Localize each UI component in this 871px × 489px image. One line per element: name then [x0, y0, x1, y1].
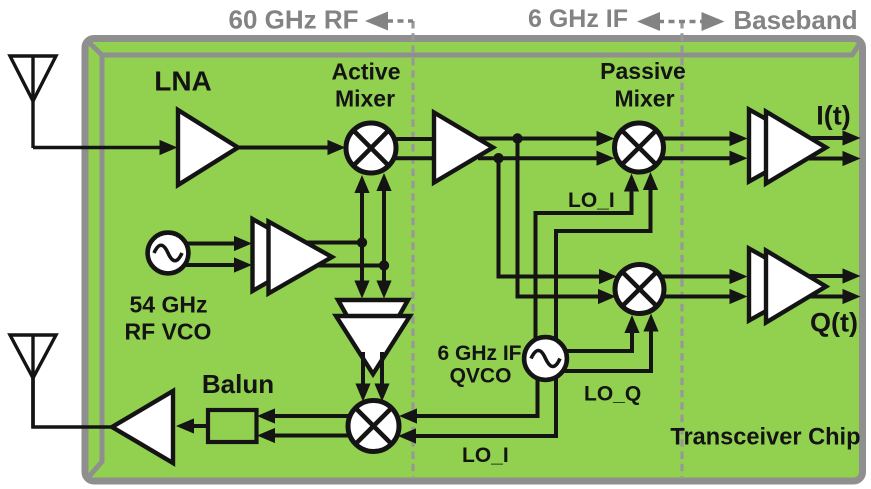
wire IF amp output top — [477, 137, 598, 141]
wire LO buffer output top — [305, 241, 362, 245]
svg-text:60 GHz RF: 60 GHz RF — [228, 5, 358, 35]
svg-text:6 GHz IF: 6 GHz IF — [528, 5, 628, 33]
wire ANT1 to LNA — [33, 146, 162, 150]
node junction on bottom IF line — [493, 153, 503, 163]
dashed boundary 60GHz RF / 6GHz IF — [411, 21, 414, 477]
antenna ANT2 (TX) — [10, 335, 56, 378]
wire balun to PA — [193, 424, 208, 428]
svg-text:LNA: LNA — [154, 66, 212, 97]
node junction LO line 1 — [357, 237, 367, 247]
wire pair M4 to balun — [274, 414, 374, 418]
svg-text:LO_I: LO_I — [462, 444, 509, 467]
wire Q(t) output top — [806, 274, 843, 278]
amplifier PA (left pointing) — [112, 391, 173, 463]
wire LO buffer output bottom — [298, 264, 384, 268]
svg-text:I(t): I(t) — [816, 101, 850, 131]
wire LO riser 1 (to active mixer / divider) — [360, 190, 364, 282]
divider (double down triangle) — [338, 300, 408, 362]
wire LO_Q 1 (QVCO to M3) — [546, 329, 633, 351]
wire IF amp output bottom — [478, 156, 598, 160]
wire I(t) output top — [806, 136, 843, 140]
svg-text:QVCO: QVCO — [450, 365, 512, 388]
chip bevel corner bottom-left — [87, 462, 103, 480]
wire IF drop 1 (bottom line to Q mixer upper input) — [499, 158, 601, 276]
wire LO_I riser 2 (QVCO to M2) — [556, 187, 651, 352]
balun — [208, 410, 257, 442]
mixer M4 TX up-conversion mixer — [348, 401, 399, 452]
mixer M1 active mixer — [346, 123, 396, 173]
svg-text:RF VCO: RF VCO — [125, 319, 212, 345]
wire LNA to active mixer — [230, 146, 329, 150]
wire PA to ANT2 — [33, 335, 120, 427]
wire I(t) output bottom — [808, 157, 843, 161]
wire pair RF VCO to LO buffer — [168, 242, 236, 246]
chip bevel corner top-left — [86, 40, 103, 57]
arrow 6 GHz IF / Baseband (double headed dashed) — [637, 12, 660, 31]
amplifier Q output buffer (double triangle) — [749, 249, 814, 321]
svg-text:LO_Q: LO_Q — [584, 383, 641, 406]
svg-text:Mixer: Mixer — [614, 86, 674, 112]
wire pair M2 to I output amp — [639, 137, 730, 141]
node junction LO line 2 — [379, 260, 389, 270]
svg-text:Mixer: Mixer — [335, 86, 395, 112]
wire divider output left (over divider) — [361, 352, 365, 385]
wire LO_I 1 to TX mixer — [416, 358, 538, 416]
wire pair M3 to Q output amp — [640, 275, 731, 279]
antenna ANT2 stem — [31, 335, 34, 428]
oscillator 6 GHz IF QVCO — [524, 337, 567, 380]
chip bevel corner top-right — [852, 40, 863, 56]
mixer M2 passive mixer I — [615, 123, 664, 172]
dashed boundary 6GHz IF / Baseband — [680, 21, 683, 477]
wire LO_Q 2 (QVCO to M3) — [546, 328, 652, 371]
wire IF drop 2 (top line to Q mixer lower input) — [518, 139, 600, 297]
svg-text:Q(t): Q(t) — [810, 308, 858, 338]
svg-text:Active: Active — [331, 59, 400, 85]
wire LO riser 2 (to active mixer / divider) — [382, 189, 386, 282]
chip inner bevel left edge — [100, 53, 105, 463]
node junction on top IF line — [512, 133, 522, 143]
amplifier IF amp — [434, 113, 493, 183]
chip inner bevel top edge — [100, 53, 853, 58]
amplifier I output buffer (double triangle) — [749, 110, 814, 182]
antenna ANT1 (RX) — [10, 56, 56, 101]
svg-text:Balun: Balun — [202, 369, 274, 399]
wire pair M1 to IF amp — [371, 137, 434, 141]
svg-text:LO_I: LO_I — [568, 189, 615, 212]
arrow 60 GHz RF (left head with dashed tail) — [365, 12, 388, 31]
oscillator 54 GHz RF VCO — [148, 233, 189, 274]
amplifier LO buffer (double triangle) — [253, 219, 317, 291]
wire LO_I riser 1 (QVCO to M2) — [536, 188, 632, 352]
svg-text:Transceiver Chip: Transceiver Chip — [670, 425, 860, 451]
wire LO_I 2 to TX mixer — [416, 358, 556, 436]
svg-text:54 GHz: 54 GHz — [130, 292, 208, 318]
amplifier LNA — [178, 110, 238, 185]
svg-text:Passive: Passive — [600, 58, 686, 84]
wire divider output right (over divider) — [380, 352, 384, 385]
svg-text:6 GHz IF: 6 GHz IF — [437, 342, 521, 365]
mixer M3 passive mixer Q — [615, 265, 664, 314]
wire Q(t) output bottom — [808, 295, 843, 299]
svg-text:Baseband: Baseband — [733, 5, 857, 35]
